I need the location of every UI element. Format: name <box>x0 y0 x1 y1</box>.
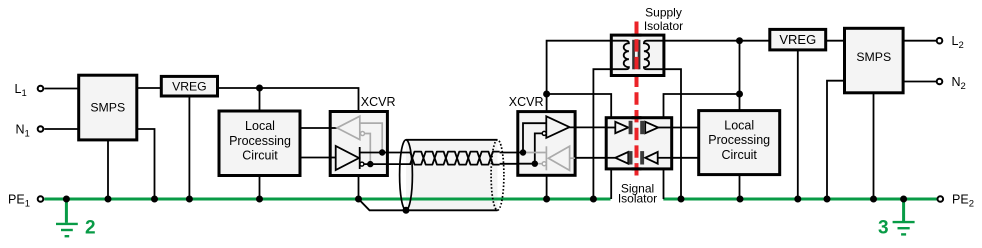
receiver A3 <box>542 116 569 138</box>
node PE supply isolator right <box>678 196 685 203</box>
node PE VREG2 <box>794 196 801 203</box>
wire N1 to SMPS <box>44 128 79 130</box>
wire SMPS bottom to PE <box>107 140 109 199</box>
wire VREG2 bottom to PE <box>797 50 799 199</box>
svg-text:Local: Local <box>245 119 275 133</box>
ground 3 <box>878 199 915 238</box>
green PE bus left <box>44 198 610 201</box>
node PE ground2 <box>63 196 70 203</box>
node PE LPC1 <box>256 196 263 203</box>
barrier bar row1 right <box>640 121 644 134</box>
terminal PE2 <box>938 193 974 210</box>
driver A4 gray <box>523 146 575 170</box>
VREG U2 <box>161 76 217 96</box>
svg-text:VREG: VREG <box>172 79 207 93</box>
wire input riser A <box>518 123 547 152</box>
node shield to PE <box>403 207 410 214</box>
Supply Isolator T1 <box>611 35 664 75</box>
svg-text:XCVR: XCVR <box>509 95 544 109</box>
node local supply <box>736 37 743 44</box>
barrier bar row2 right <box>640 151 644 164</box>
signal isolator border patch bottom <box>632 167 642 170</box>
svg-text:Processing: Processing <box>708 133 770 147</box>
wire SMPS right down to PE <box>137 129 155 199</box>
svg-text:N2: N2 <box>952 75 966 92</box>
node driver out A <box>379 149 385 155</box>
wire local supply riser <box>739 41 741 111</box>
node isolated supply <box>543 91 550 98</box>
node local rail junction <box>736 91 743 98</box>
signal isolator border patch top <box>632 116 642 119</box>
barrier bar row1 left <box>629 121 633 134</box>
receiver A1 gray <box>337 116 382 164</box>
wire SMPS2 bottom to PE <box>873 93 875 199</box>
svg-text:XCVR: XCVR <box>361 95 396 109</box>
svg-text:PE1: PE1 <box>8 193 30 210</box>
node rail-LPC junction <box>256 85 263 92</box>
driver A2 <box>336 146 364 170</box>
Local Processing Circuit U3 <box>219 111 300 176</box>
wire LPC to XCVR receiver <box>300 127 337 129</box>
supply isolator border patch bottom <box>632 74 642 77</box>
svg-text:L2: L2 <box>952 34 964 51</box>
XCVR U4 <box>330 95 395 176</box>
node PE LPC2 <box>737 196 744 203</box>
terminal L2 <box>937 34 964 51</box>
twisted pair wire A <box>410 152 500 165</box>
wire LPC to XCVR driver <box>300 157 336 159</box>
node driver out B <box>367 161 373 167</box>
label signal isolator <box>618 181 657 205</box>
svg-text:L1: L1 <box>15 82 27 99</box>
wire LPC2 bottom to PE <box>739 175 741 199</box>
wire SMPS2 to N2 <box>903 81 936 83</box>
buffer row2 left <box>615 152 628 164</box>
isolation barrier red dashed line <box>635 22 639 180</box>
wire signal isolator left ground <box>610 169 612 199</box>
wire supply isolator to VREG2 <box>664 40 769 42</box>
svg-text:N1: N1 <box>16 123 30 140</box>
SMPS U9 <box>845 28 904 93</box>
buffer row1 left <box>615 122 628 133</box>
supply isolator border patch top <box>632 34 642 37</box>
svg-text:VREG: VREG <box>779 32 816 47</box>
wire supply isolator right ground <box>664 69 681 199</box>
svg-text:Circuit: Circuit <box>242 149 278 163</box>
node PE XCVR2 <box>543 196 550 203</box>
wire shield tap <box>359 199 407 210</box>
wire driver output noninverting <box>360 152 411 154</box>
terminal PE1 <box>8 193 43 210</box>
wire isolator to LPC2 row1 <box>672 127 699 129</box>
node input B <box>532 161 538 167</box>
wire receiver output <box>570 126 607 128</box>
wire supply isolator left ground <box>593 69 611 199</box>
wire pair to XCVR2 top <box>500 152 518 154</box>
wire row1 left <box>606 127 615 129</box>
node PE XCVR1 <box>355 196 362 203</box>
wire row2 right <box>658 157 672 159</box>
wire SMPS to VREG <box>137 87 162 89</box>
svg-text:Processing: Processing <box>229 134 291 148</box>
wire driver input stub <box>330 157 337 159</box>
svg-text:Local: Local <box>724 118 754 132</box>
green PE bus right <box>663 198 937 201</box>
node PE SMPS1 right <box>151 196 158 203</box>
wire SMPS2 to L2 <box>903 40 936 42</box>
svg-text:Isolator: Isolator <box>618 192 657 206</box>
node input A <box>520 149 526 155</box>
wire signal isolator right ground <box>663 169 665 199</box>
VREG U8 <box>770 29 826 50</box>
terminal N2 <box>937 75 966 92</box>
node PE SMPS2 left <box>824 196 831 203</box>
wire local rail to signal isolator <box>664 94 740 118</box>
wire input riser B <box>518 133 543 163</box>
node PE supply isolator left <box>590 196 597 203</box>
barrier bar row2 left <box>629 151 633 164</box>
svg-text:Supply: Supply <box>645 6 682 20</box>
wire supply rail to XCVR <box>218 88 359 112</box>
buffer row1 right <box>645 122 658 133</box>
wire pair to XCVR2 bottom <box>500 163 518 165</box>
left ellipse of cable shield <box>400 140 413 210</box>
SMPS U1 <box>79 75 137 140</box>
wire rail down to LPC <box>259 88 261 111</box>
wire driver input from isolator <box>575 157 606 159</box>
wire row2 left <box>606 157 615 159</box>
node PE SMPS2 bottom <box>870 196 877 203</box>
wire L1 to SMPS <box>44 88 79 90</box>
wire XCVR2 ground <box>546 175 548 199</box>
wire XCVR ground <box>358 175 360 199</box>
ground 2 <box>56 199 96 239</box>
wire VREG2 to SMPS2 <box>826 40 845 42</box>
wire driver output inverting <box>364 163 411 165</box>
twisted pair wire B <box>410 152 500 165</box>
svg-text:PE2: PE2 <box>952 193 974 210</box>
XCVR U5 <box>509 95 575 176</box>
terminal L1 <box>15 82 44 99</box>
wire SMPS2 left down to PE <box>827 81 845 199</box>
Local Processing Circuit U7 <box>699 111 780 175</box>
svg-text:2: 2 <box>85 218 96 239</box>
wire LPC bottom to PE <box>259 176 261 200</box>
wire isolated supply to XCVR2 <box>547 41 612 112</box>
wire isolator to LPC2 row2 <box>672 157 699 159</box>
buffer row2 right <box>645 152 658 164</box>
svg-text:Isolator: Isolator <box>644 19 683 33</box>
label supply isolator <box>644 6 683 33</box>
svg-text:Circuit: Circuit <box>721 148 757 162</box>
node PE SMPS1 bottom <box>105 196 112 203</box>
wire receiver output stub <box>330 127 338 129</box>
right ellipse of cable shield dotted <box>491 140 504 210</box>
wire VREG bottom to PE <box>188 96 190 199</box>
cable body <box>406 140 498 211</box>
node PE ground3 <box>900 196 907 203</box>
Signal Isolator U6 <box>606 118 672 169</box>
wire row1 right <box>658 127 672 129</box>
svg-text:SMPS: SMPS <box>90 101 125 115</box>
node PE VREG1 <box>186 196 193 203</box>
wire isolated rail to signal isolator <box>547 94 612 118</box>
svg-text:3: 3 <box>878 217 889 238</box>
terminal N1 <box>16 123 44 140</box>
svg-text:SMPS: SMPS <box>856 50 891 64</box>
